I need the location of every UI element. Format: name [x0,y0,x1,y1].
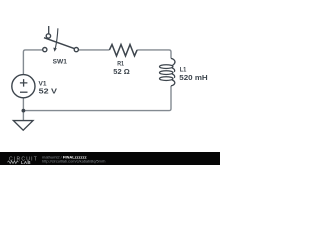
junction node [22,109,26,113]
resistor R1 [109,45,137,56]
svg-text:R1: R1 [117,61,124,68]
svg-text:L1: L1 [180,67,187,74]
SW1 top throw stub [48,26,50,34]
V1 plus sign [20,79,28,87]
svg-text:SW1: SW1 [53,58,68,65]
V1 minus sign [20,91,28,93]
CircuitLab logo zigzag [7,161,18,164]
voltage source V1 [12,75,35,98]
switch SW1 [43,26,79,52]
svg-text:http://circuitlab.com/c/ka6ab8: http://circuitlab.com/c/ka6ab8lq/5mrh [42,159,105,164]
inductor L1 [160,58,176,86]
svg-text:52 V: 52 V [39,89,58,96]
wire: V1 top up and right to switch left terminal [23,50,42,75]
svg-text:520 mH: 520 mH [179,75,207,82]
wire: switch right terminal to resistor R1 [78,49,109,51]
wire: V1 bottom to junction to ground [22,98,24,120]
SW1 right terminal circle [74,48,78,52]
SW1 blade [44,38,74,49]
wire: resistor R1 to top-right corner down to inductor [137,50,171,59]
wire: inductor bottom to bottom-right corner and bottom rail to junction [23,86,171,111]
SW1 left terminal circle [43,48,47,52]
ground [13,121,33,131]
svg-text:52 Ω: 52 Ω [113,69,130,76]
SW1 top terminal circle [46,34,50,38]
svg-text:LAB: LAB [21,160,31,165]
watermark banner [0,152,220,165]
SW1 actuation arrow [55,28,58,48]
svg-text:V1: V1 [39,81,47,88]
